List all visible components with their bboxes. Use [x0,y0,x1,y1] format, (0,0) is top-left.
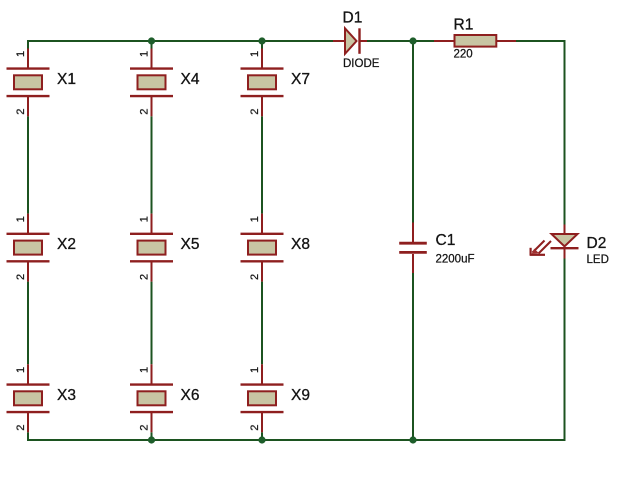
LED arrow 2 [539,241,552,254]
crystal X6 [130,364,199,432]
svg-text:1: 1 [15,367,27,373]
svg-text:2: 2 [139,109,151,115]
crystal X7 [241,49,310,117]
svg-text:LED: LED [587,254,609,266]
svg-text:2: 2 [139,274,151,280]
junction top C1 [409,37,416,44]
crystal X2 [7,214,76,282]
junction bottom C1 [409,436,416,443]
svg-text:2: 2 [15,109,27,115]
svg-text:D2: D2 [587,235,607,252]
svg-text:X8: X8 [291,236,310,253]
crystal X3 [7,364,76,432]
wire col2 X4-X5 [151,116,153,213]
wire left vertical rail [27,40,29,49]
svg-text:X9: X9 [291,387,310,404]
LED arrowhead fill [532,249,539,254]
wire right vertical upper (corner to LED) [564,40,566,225]
svg-text:2: 2 [139,425,151,431]
svg-text:1: 1 [139,216,151,222]
wire right vertical lower (LED to bottom rail) [564,259,566,442]
crystal X4 [130,49,200,117]
svg-text:D1: D1 [343,10,363,27]
wire col2 X5-X6 [151,282,153,365]
wire col3 X7-X8 [261,116,263,213]
wire C1 column lower [412,273,414,440]
svg-text:X3: X3 [57,387,76,404]
LED arrow 1 [533,241,545,253]
svg-text:1: 1 [249,367,261,373]
svg-text:DIODE: DIODE [343,58,380,70]
svg-text:2: 2 [15,274,27,280]
svg-text:1: 1 [249,51,261,57]
svg-text:1: 1 [15,216,27,222]
svg-text:220: 220 [454,49,473,61]
svg-text:1: 1 [139,367,151,373]
diode D1 [333,10,380,70]
junction top col3 [258,37,265,44]
svg-text:X1: X1 [57,71,76,88]
wire top rail middle segment (diode to R1) [366,40,436,42]
svg-text:X2: X2 [57,236,76,253]
wire col1 X3-bottom [27,432,29,441]
wire C1 column upper [412,41,414,223]
wire top rail right segment (R1 to right corner) [514,40,566,42]
wire col1 X1-X2 [27,116,29,213]
svg-text:2: 2 [249,109,261,115]
svg-text:C1: C1 [436,232,456,249]
wire col3 top-X7 [261,41,263,49]
svg-text:2: 2 [249,274,261,280]
crystal X8 [241,214,310,282]
wire col3 X8-X9 [261,282,263,365]
resistor R1 [434,17,516,61]
wire bottom rail [27,439,566,441]
svg-text:1: 1 [139,51,151,57]
capacitor C1 [399,223,474,274]
LED D2 [530,225,609,267]
svg-text:X6: X6 [181,387,200,404]
LED arrowhead barb vertical [529,248,531,256]
svg-text:X4: X4 [181,71,200,88]
junction bottom col3 [258,436,265,443]
svg-text:X7: X7 [291,71,310,88]
wire col2 X6-bottom [151,432,153,440]
svg-text:2: 2 [15,425,27,431]
crystal X5 [130,214,199,282]
svg-text:1: 1 [15,51,27,57]
svg-text:R1: R1 [454,17,474,34]
svg-text:2200uF: 2200uF [436,254,475,266]
junction top col2 [148,37,155,44]
wire col3 X9-bottom [261,432,263,440]
wire col2 top-X4 [151,41,153,49]
svg-text:2: 2 [249,425,261,431]
svg-text:X5: X5 [181,236,200,253]
wire top rail left segment [27,40,333,42]
wire col1 X2-X3 [27,282,29,365]
LED arrowhead barb horizontal [530,254,545,256]
crystal X9 [241,364,310,432]
junction bottom col2 [148,436,155,443]
crystal X1 [7,49,76,117]
svg-text:1: 1 [249,216,261,222]
